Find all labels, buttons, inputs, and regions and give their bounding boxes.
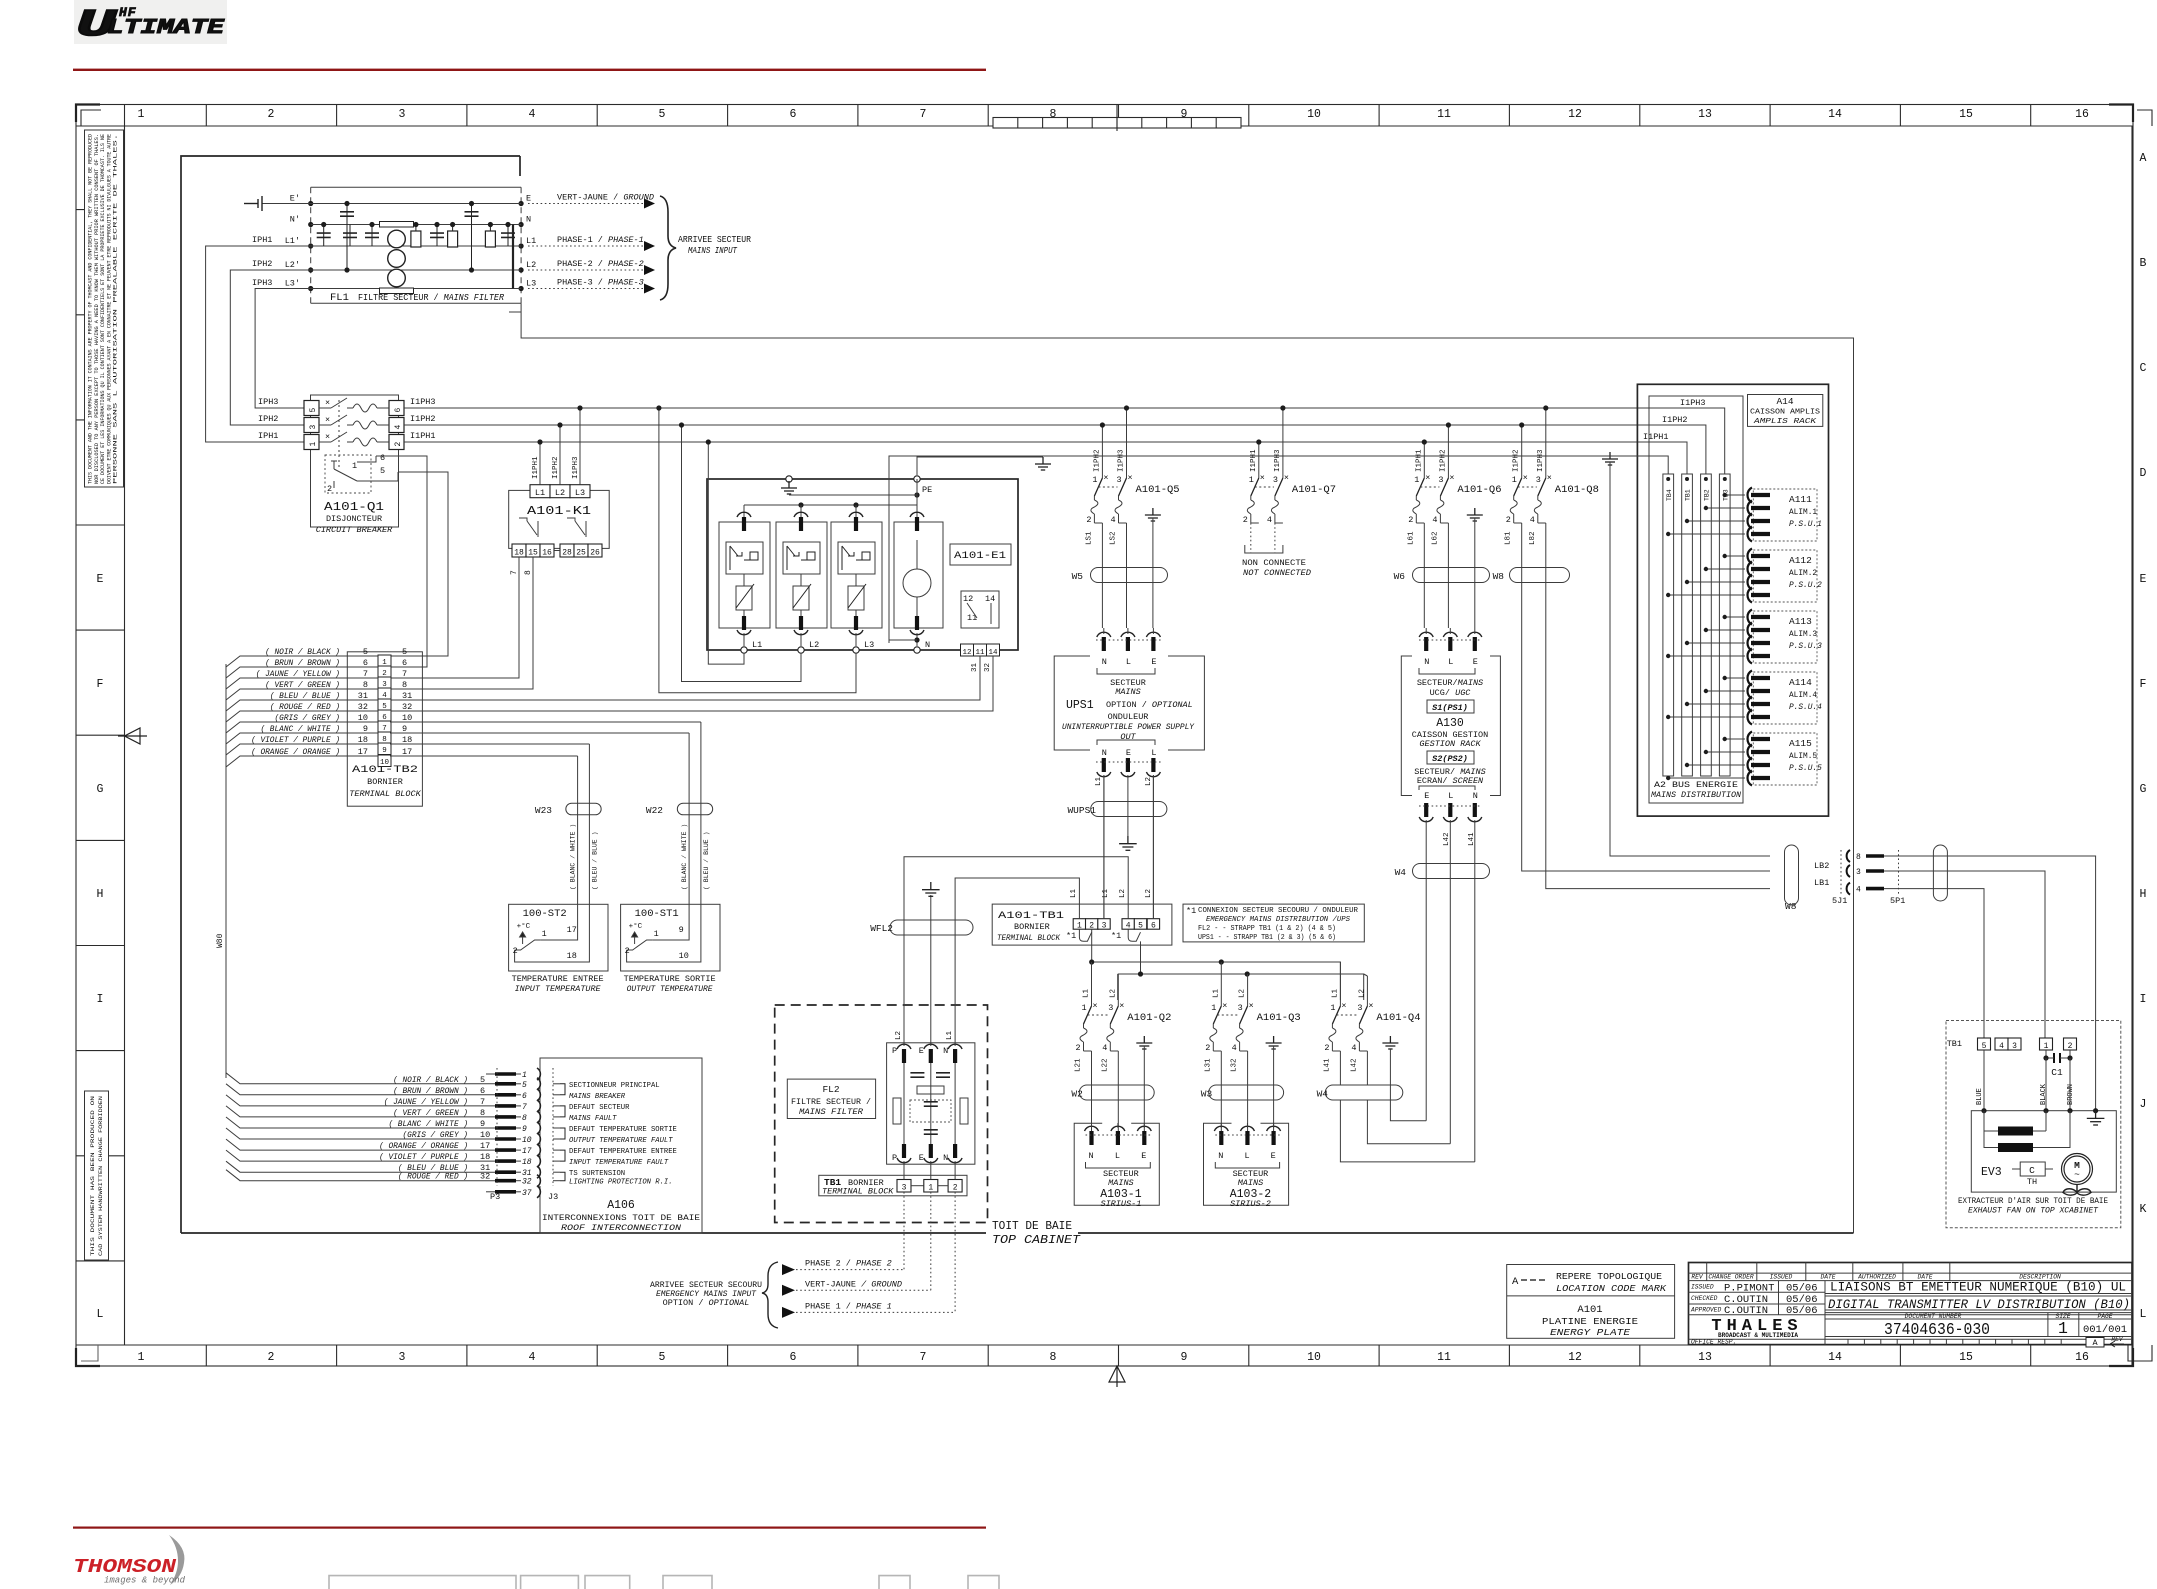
svg-text:W8: W8 — [1493, 571, 1505, 582]
svg-text:E': E' — [290, 194, 300, 204]
svg-text:G: G — [2140, 783, 2147, 796]
UPS earth — [1119, 836, 1137, 850]
circuit breaker A101-Q3 — [1205, 1001, 1300, 1053]
svg-text:APPROVED: APPROVED — [1690, 1307, 1721, 1314]
svg-text:4: 4 — [529, 1351, 536, 1364]
cable WUPS1 — [1091, 802, 1167, 817]
svg-text:WFL2: WFL2 — [870, 923, 893, 934]
svg-text:8: 8 — [524, 570, 533, 575]
svg-text:W8: W8 — [1785, 901, 1797, 912]
svg-text:DOIVENT ETRE COMMUNIQUES QU AU: DOIVENT ETRE COMMUNIQUES QU AUX PERSONNE… — [106, 134, 112, 484]
svg-text:( BLANC / WHITE ): ( BLANC / WHITE ) — [388, 1121, 468, 1129]
svg-text:MAINS FILTER: MAINS FILTER — [799, 1109, 863, 1117]
svg-text:OFFICE RESP.: OFFICE RESP. — [1691, 1339, 1736, 1346]
svg-text:( VERT / GREEN ): ( VERT / GREEN ) — [393, 1110, 468, 1118]
svg-text:I1PH1: I1PH1 — [1643, 432, 1669, 442]
svg-text:×: × — [325, 432, 330, 442]
heater resistors — [1984, 1111, 2046, 1131]
PE feed wire — [917, 457, 1043, 475]
svg-text:1: 1 — [1077, 922, 1082, 931]
svg-text:C.OUTIN: C.OUTIN — [1724, 1294, 1768, 1306]
cable to fan — [1933, 845, 1947, 901]
svg-text:1: 1 — [309, 442, 318, 447]
svg-text:L: L — [97, 1308, 104, 1321]
svg-text:26: 26 — [590, 549, 600, 558]
svg-text:L: L — [2140, 1308, 2147, 1321]
svg-text:5P1: 5P1 — [1890, 896, 1905, 906]
A2 bus energie box — [1649, 396, 1743, 803]
ruler row letters — [97, 152, 2147, 1321]
svg-text:SIRIUS-2: SIRIUS-2 — [1230, 1199, 1271, 1209]
svg-text:×: × — [1523, 473, 1528, 483]
svg-text:×: × — [1249, 1001, 1254, 1011]
svg-text:( BRUN / BROWN ): ( BRUN / BROWN ) — [393, 1088, 468, 1096]
svg-text:×: × — [1128, 473, 1133, 483]
EV3 terminal 1 — [2040, 1038, 2053, 1050]
TB2 terminal 2 row 6 — [347, 658, 407, 678]
svg-text:10: 10 — [522, 1136, 532, 1145]
svg-text:( VIOLET / PURPLE ): ( VIOLET / PURPLE ) — [379, 1154, 468, 1162]
ruler column ticks — [206, 105, 2030, 1367]
svg-text:P.S.U.2: P.S.U.2 — [1789, 582, 1822, 590]
cable W23 — [566, 803, 601, 815]
svg-text:16: 16 — [542, 549, 552, 558]
svg-text:N: N — [943, 1153, 948, 1163]
svg-text:A: A — [2140, 152, 2147, 165]
svg-text:P.PIMONT: P.PIMONT — [1724, 1282, 1774, 1294]
svg-text:L1: L1 — [1095, 776, 1103, 786]
svg-text:4: 4 — [1267, 515, 1272, 525]
svg-text:VERT-JAUNE / GROUND: VERT-JAUNE / GROUND — [805, 1279, 902, 1289]
svg-text:LB2: LB2 — [1814, 861, 1829, 871]
wire E1 L1 to bus — [708, 442, 744, 664]
TB1 terminal 4 — [1122, 919, 1134, 930]
svg-text:100-ST1: 100-ST1 — [635, 908, 679, 920]
svg-text:5: 5 — [309, 408, 318, 413]
distribution bus bar TB3 — [1719, 474, 1730, 776]
wires TB2 to W22 — [390, 732, 689, 734]
svg-text:L2: L2 — [1145, 889, 1153, 898]
K1 terminal 16 — [540, 544, 554, 557]
circuit breaker A101-Q6 — [1408, 473, 1501, 525]
svg-text:2: 2 — [327, 484, 332, 494]
svg-text:7: 7 — [522, 1103, 527, 1112]
svg-text:BORNIER: BORNIER — [367, 777, 403, 787]
svg-text:P: P — [892, 1153, 897, 1163]
temperature sensor 100-ST1 — [621, 722, 720, 994]
W8 wires down and right — [1522, 523, 1770, 871]
svg-text:2: 2 — [1089, 922, 1094, 931]
svg-text:7: 7 — [402, 669, 407, 679]
feeder drops to Q8 — [1522, 408, 1546, 478]
svg-text:LTIMATE: LTIMATE — [107, 17, 225, 40]
U-turn wires Q4 to A130 — [1340, 1100, 1474, 1162]
svg-text:TEMPERATURE ENTREE: TEMPERATURE ENTREE — [512, 976, 604, 984]
svg-text:1: 1 — [1082, 1003, 1087, 1013]
TB2 terminal 4 row 8 — [347, 680, 407, 700]
S1(PS1) — [1427, 700, 1474, 713]
footer table remnants — [329, 1576, 999, 1589]
svg-text:7: 7 — [920, 1351, 927, 1364]
mains filter FL1 box — [311, 187, 521, 303]
svg-text:P: P — [892, 1046, 897, 1056]
svg-text:I1PH3: I1PH3 — [1118, 449, 1126, 472]
svg-text:W2: W2 — [1071, 1089, 1083, 1100]
svg-text:2: 2 — [513, 946, 518, 956]
svg-text:INPUT TEMPERATURE FAULT: INPUT TEMPERATURE FAULT — [569, 1159, 669, 1167]
wires bars to A112 — [1666, 554, 1745, 597]
EV3 terminal 2 — [2064, 1038, 2077, 1050]
svg-text:A115: A115 — [1789, 738, 1812, 749]
svg-text:TERMINAL BLOCK: TERMINAL BLOCK — [349, 789, 421, 799]
K1 terminal L1 — [530, 485, 550, 498]
svg-text:4: 4 — [1999, 1042, 2004, 1051]
svg-text:TB4: TB4 — [1666, 489, 1673, 501]
svg-text:MAINS BREAKER: MAINS BREAKER — [569, 1093, 626, 1101]
power supply module A115 — [1747, 732, 1822, 786]
UPS input terminals N L E — [1096, 628, 1161, 674]
A101-E1 label box — [950, 544, 1011, 565]
svg-text:18: 18 — [567, 951, 577, 961]
cable W6 — [1413, 568, 1490, 583]
svg-text:TB1: TB1 — [1685, 489, 1692, 501]
svg-text:A101: A101 — [1577, 1304, 1602, 1316]
svg-text:001/001: 001/001 — [2083, 1324, 2127, 1336]
svg-text:ONDULEUR: ONDULEUR — [1108, 712, 1149, 722]
svg-text:CE DOCUMENT ET LES INFORMATION: CE DOCUMENT ET LES INFORMATIONS QU IL CO… — [100, 134, 106, 484]
ruler row ticks — [76, 210, 2133, 1261]
contactor A101-K1 — [509, 490, 610, 548]
bottom rule — [73, 1527, 986, 1529]
K1 supply drops — [540, 408, 580, 485]
svg-text:VERT-JAUNE / GROUND: VERT-JAUNE / GROUND — [557, 193, 654, 203]
svg-text:2: 2 — [1086, 515, 1091, 525]
svg-text:4: 4 — [1530, 515, 1535, 525]
cable W22 — [677, 803, 712, 815]
svg-text:1: 1 — [928, 1184, 933, 1193]
TB2 terminal 5 row 31 — [347, 691, 412, 711]
svg-text:N: N — [1424, 657, 1429, 667]
motor M — [2062, 1154, 2093, 1185]
cable W8 horizontal — [1510, 568, 1570, 583]
svg-text:5: 5 — [480, 1075, 485, 1085]
svg-text:A101-TB1: A101-TB1 — [998, 910, 1064, 922]
svg-text:L3: L3 — [526, 279, 536, 289]
fan blades — [2063, 1185, 2091, 1196]
distribution bus bar TB4 — [1663, 474, 1674, 776]
svg-text:UNINTERRUPTIBLE POWER SUPPLY: UNINTERRUPTIBLE POWER SUPPLY — [1062, 722, 1195, 732]
roof boundary line TOIT DE BAIE — [181, 1232, 1854, 1234]
drawing frame border — [76, 105, 2133, 1367]
svg-text:L2: L2 — [1119, 889, 1127, 898]
svg-text:6: 6 — [790, 108, 797, 121]
wire E1 L3 to bus — [659, 408, 856, 693]
svg-text:N': N' — [290, 215, 300, 225]
svg-text:OPTION / OPTIONAL: OPTION / OPTIONAL — [663, 1298, 750, 1308]
center fold triangles — [118, 728, 1125, 1387]
svg-text:6: 6 — [1151, 922, 1156, 931]
FL2 to TB1 bornier wires — [904, 1161, 955, 1180]
svg-text:6: 6 — [363, 658, 368, 668]
svg-text:1: 1 — [1414, 475, 1419, 485]
svg-text:I: I — [97, 993, 104, 1006]
svg-text:ISSUED: ISSUED — [1770, 1273, 1793, 1280]
svg-text:3: 3 — [2012, 1042, 2017, 1051]
EV3 terminal 4 — [1995, 1038, 2008, 1050]
svg-text:( BLEU / BLUE ): ( BLEU / BLUE ) — [591, 831, 598, 890]
cable W4 — [1325, 1085, 1403, 1100]
svg-text:INTERCONNEXIONS TOIT DE BAI: INTERCONNEXIONS TOIT DE BAIE — [542, 1215, 700, 1223]
svg-text:~: ~ — [2074, 1169, 2080, 1180]
svg-text:*1: *1 — [1066, 931, 1076, 941]
svg-text:6: 6 — [522, 1092, 527, 1101]
folding scale bar — [993, 105, 1241, 132]
svg-text:4: 4 — [1126, 922, 1131, 931]
CAD production notice box — [85, 1091, 109, 1260]
svg-text:18: 18 — [358, 735, 368, 745]
svg-text:28: 28 — [562, 549, 572, 558]
svg-text:3: 3 — [1117, 475, 1122, 485]
Q1 pole 5-6 — [258, 397, 436, 416]
temperature sensor 100-ST2 — [509, 744, 608, 994]
svg-text:S1(PS1): S1(PS1) — [1432, 703, 1468, 713]
svg-text:11: 11 — [975, 649, 985, 657]
svg-text:TERMINAL BLOCK: TERMINAL BLOCK — [822, 1187, 894, 1197]
svg-text:H: H — [97, 888, 104, 901]
svg-text:3: 3 — [1238, 1003, 1243, 1013]
A130 input terminals N L E — [1419, 628, 1482, 674]
svg-text:L82: L82 — [1529, 531, 1537, 545]
svg-text:31: 31 — [358, 691, 368, 701]
wires bars to A115 — [1666, 737, 1745, 780]
TB1 terminal 1 — [1073, 919, 1085, 930]
wire E1 N to neutral — [889, 639, 917, 641]
svg-text:7: 7 — [480, 1097, 485, 1107]
svg-text:AMPLIS RACK: AMPLIS RACK — [1753, 418, 1817, 426]
TB1 terminal 5 — [1134, 919, 1146, 930]
svg-text:5: 5 — [1982, 1042, 1987, 1051]
svg-text:PHASE-2 / PHASE-2: PHASE-2 / PHASE-2 — [557, 259, 644, 269]
svg-text:FL2 - - STRAPP TB1 (1 & 2) (4: FL2 - - STRAPP TB1 (1 & 2) (4 & 5) — [1198, 925, 1336, 933]
svg-text:MAINS DISTRIBUTION: MAINS DISTRIBUTION — [1651, 792, 1741, 800]
svg-text:9: 9 — [522, 1125, 527, 1134]
svg-text:I1PH1: I1PH1 — [532, 456, 540, 479]
svg-text:1: 1 — [1211, 1003, 1216, 1013]
svg-text:17: 17 — [358, 747, 368, 757]
not connected stubs — [1251, 523, 1275, 553]
svg-text:C.OUTIN: C.OUTIN — [1724, 1305, 1768, 1317]
svg-text:32: 32 — [522, 1178, 532, 1187]
EV3 terminal 5 — [1978, 1038, 1991, 1050]
svg-text:A101-Q2: A101-Q2 — [1127, 1012, 1171, 1024]
bus secouru L1 — [1092, 929, 1341, 1000]
svg-text:I1PH2: I1PH2 — [1093, 449, 1101, 472]
roof interconnection unit A106 — [540, 1058, 702, 1233]
svg-text:BROWN: BROWN — [2067, 1084, 2075, 1105]
svg-text:A130: A130 — [1436, 717, 1464, 730]
TB2 terminal 9 row 18 — [347, 735, 412, 755]
svg-text:E: E — [919, 1046, 924, 1056]
wires TB2 to W23 — [390, 755, 578, 757]
top rule — [73, 69, 986, 71]
svg-text:4: 4 — [1232, 1043, 1237, 1053]
svg-text:ALIM.3: ALIM.3 — [1789, 631, 1817, 639]
revision tick cells — [1848, 1339, 2061, 1344]
svg-text:I1PH2: I1PH2 — [552, 456, 560, 479]
svg-text:E: E — [1141, 1151, 1146, 1161]
svg-text:L2: L2 — [1109, 989, 1117, 998]
svg-text:MAINS: MAINS — [1108, 1178, 1134, 1188]
svg-text:5: 5 — [363, 647, 368, 657]
bus I1PH2 — [404, 424, 1701, 426]
svg-text:TERMINAL BLOCK: TERMINAL BLOCK — [997, 933, 1061, 943]
svg-text:ALIM.2: ALIM.2 — [1789, 570, 1817, 578]
svg-text:×: × — [1093, 1001, 1098, 1011]
svg-text:ALIM.5: ALIM.5 — [1789, 753, 1817, 761]
svg-text:3: 3 — [1102, 922, 1107, 931]
svg-text:W4: W4 — [1395, 867, 1407, 878]
svg-text:1: 1 — [522, 1071, 527, 1080]
svg-text:I1PH2: I1PH2 — [410, 414, 436, 424]
svg-text:N: N — [1102, 748, 1107, 758]
E1 signal wires to TB2 — [390, 656, 980, 700]
ruler column numbers — [138, 108, 2089, 1364]
svg-text:UCG/ UGC: UCG/ UGC — [1430, 688, 1472, 698]
note box emergency strap — [1183, 904, 1364, 942]
bus bar feed I1PH2 — [1701, 425, 1706, 474]
svg-text:3: 3 — [1108, 1003, 1113, 1013]
svg-text:16: 16 — [2075, 108, 2089, 121]
svg-text:TB2: TB2 — [1704, 489, 1711, 501]
motor wires — [1984, 1050, 2070, 1111]
svg-text:I1PH2: I1PH2 — [1662, 415, 1688, 425]
svg-text:IPH2: IPH2 — [252, 259, 272, 269]
wires bars to A114 — [1666, 676, 1745, 719]
svg-text:CHECKED: CHECKED — [1691, 1295, 1718, 1302]
svg-text:100-ST2: 100-ST2 — [523, 908, 567, 920]
svg-text:1: 1 — [542, 929, 547, 939]
capacitor C1 — [2054, 1053, 2060, 1063]
svg-text:ENERGY PLATE: ENERGY PLATE — [1550, 1327, 1630, 1338]
svg-text:MAINS INPUT: MAINS INPUT — [688, 245, 738, 256]
UPS unit UPS1 — [1054, 656, 1204, 750]
svg-text:L: L — [1448, 657, 1453, 667]
distribution bus bar TB2 — [1701, 474, 1712, 776]
svg-text:L: L — [1151, 748, 1156, 758]
svg-text:G: G — [97, 783, 104, 796]
bus bar feed I1PH1 — [1679, 442, 1687, 474]
power supply module A113 — [1747, 610, 1822, 664]
svg-text:LOCATION CODE MARK: LOCATION CODE MARK — [1556, 1283, 1667, 1294]
svg-text:L1: L1 — [1212, 988, 1220, 998]
svg-text:25: 25 — [576, 549, 586, 558]
svg-text:1: 1 — [352, 461, 357, 471]
svg-text:L: L — [1126, 657, 1131, 667]
svg-text:2: 2 — [1205, 1043, 1210, 1053]
svg-text:10: 10 — [1307, 108, 1321, 121]
svg-text:PHASE 1 / PHASE 1: PHASE 1 / PHASE 1 — [805, 1301, 892, 1311]
svg-text:5: 5 — [1138, 922, 1143, 931]
svg-text:L3': L3' — [285, 279, 300, 289]
main enclosure outline — [181, 156, 520, 1233]
svg-text:N: N — [1473, 791, 1478, 801]
input brace — [660, 196, 676, 300]
svg-text:9: 9 — [679, 925, 684, 935]
svg-text:32: 32 — [480, 1172, 490, 1182]
feeder drops to Q6 — [1424, 425, 1448, 478]
svg-text:2: 2 — [625, 946, 630, 956]
svg-text:BORNIER: BORNIER — [1014, 922, 1050, 932]
svg-text:I1PH3: I1PH3 — [1274, 449, 1282, 472]
title block — [1689, 1263, 2133, 1345]
svg-text:14: 14 — [985, 594, 995, 604]
TB2 terminal 1 row 5 — [347, 647, 407, 667]
svg-text:10: 10 — [1307, 1351, 1321, 1364]
svg-text:WUPS1: WUPS1 — [1067, 805, 1096, 816]
svg-text:LB1: LB1 — [1814, 878, 1829, 888]
svg-text:8: 8 — [402, 680, 407, 690]
svg-text:05/06: 05/06 — [1786, 1305, 1818, 1317]
riser TB1-3 — [1103, 775, 1105, 919]
svg-text:2: 2 — [1324, 1043, 1329, 1053]
svg-text:10: 10 — [380, 759, 390, 767]
svg-text:4: 4 — [394, 425, 403, 430]
circuit breaker A101-Q5 — [1086, 473, 1179, 525]
TB2 terminal 6 row 32 — [347, 702, 412, 722]
FL1 right terminals — [519, 194, 537, 292]
svg-text:L31: L31 — [1204, 1058, 1212, 1072]
K1 terminal L2 — [550, 485, 570, 498]
svg-text:18: 18 — [480, 1152, 490, 1162]
svg-text:A: A — [2092, 1338, 2098, 1348]
K1 terminal 25 — [574, 544, 588, 557]
svg-text:A114: A114 — [1789, 677, 1812, 688]
TB1 bornier terminal 1 — [924, 1180, 938, 1193]
svg-text:3: 3 — [1856, 868, 1861, 877]
terminal block A101-TB2 — [347, 652, 422, 806]
TB2 left wires to cable W80 — [226, 649, 347, 767]
bus I1PH3 — [404, 407, 1723, 409]
svg-text:2: 2 — [1076, 1043, 1081, 1053]
surge arrester module L3 — [831, 505, 882, 653]
svg-text:L3: L3 — [575, 488, 585, 498]
TB2 terminal 10 row 17 — [347, 747, 412, 767]
svg-text:17: 17 — [567, 925, 577, 935]
svg-text:ALIM.4: ALIM.4 — [1789, 692, 1817, 700]
svg-text:PERSONNE SANS L AUTORISATION P: PERSONNE SANS L AUTORISATION PREALABLE E… — [113, 134, 119, 484]
svg-text:1: 1 — [2058, 1319, 2068, 1338]
svg-text:W22: W22 — [646, 805, 663, 816]
svg-text:×: × — [1341, 1001, 1346, 1011]
svg-text:I1PH2: I1PH2 — [1439, 449, 1447, 472]
FL2 top terminals P E N — [892, 1044, 962, 1063]
svg-text:1: 1 — [138, 1351, 145, 1364]
svg-text:EV3: EV3 — [1981, 1166, 2002, 1179]
svg-text:A113: A113 — [1789, 616, 1812, 627]
svg-text:W5: W5 — [1072, 571, 1084, 582]
svg-text:IPH1: IPH1 — [252, 235, 272, 245]
TB1 terminal 6 — [1147, 919, 1159, 930]
connector shell P3 — [496, 1068, 498, 1186]
svg-text:4: 4 — [1111, 515, 1116, 525]
svg-text:10: 10 — [358, 713, 368, 723]
svg-text:L2: L2 — [1145, 777, 1153, 786]
K1 terminal L3 — [570, 485, 590, 498]
Q1 pole 3-4 — [258, 414, 436, 433]
svg-text:C1: C1 — [2051, 1067, 2063, 1078]
svg-text:REV: REV — [1691, 1273, 1704, 1280]
svg-text:9: 9 — [1181, 1351, 1188, 1364]
